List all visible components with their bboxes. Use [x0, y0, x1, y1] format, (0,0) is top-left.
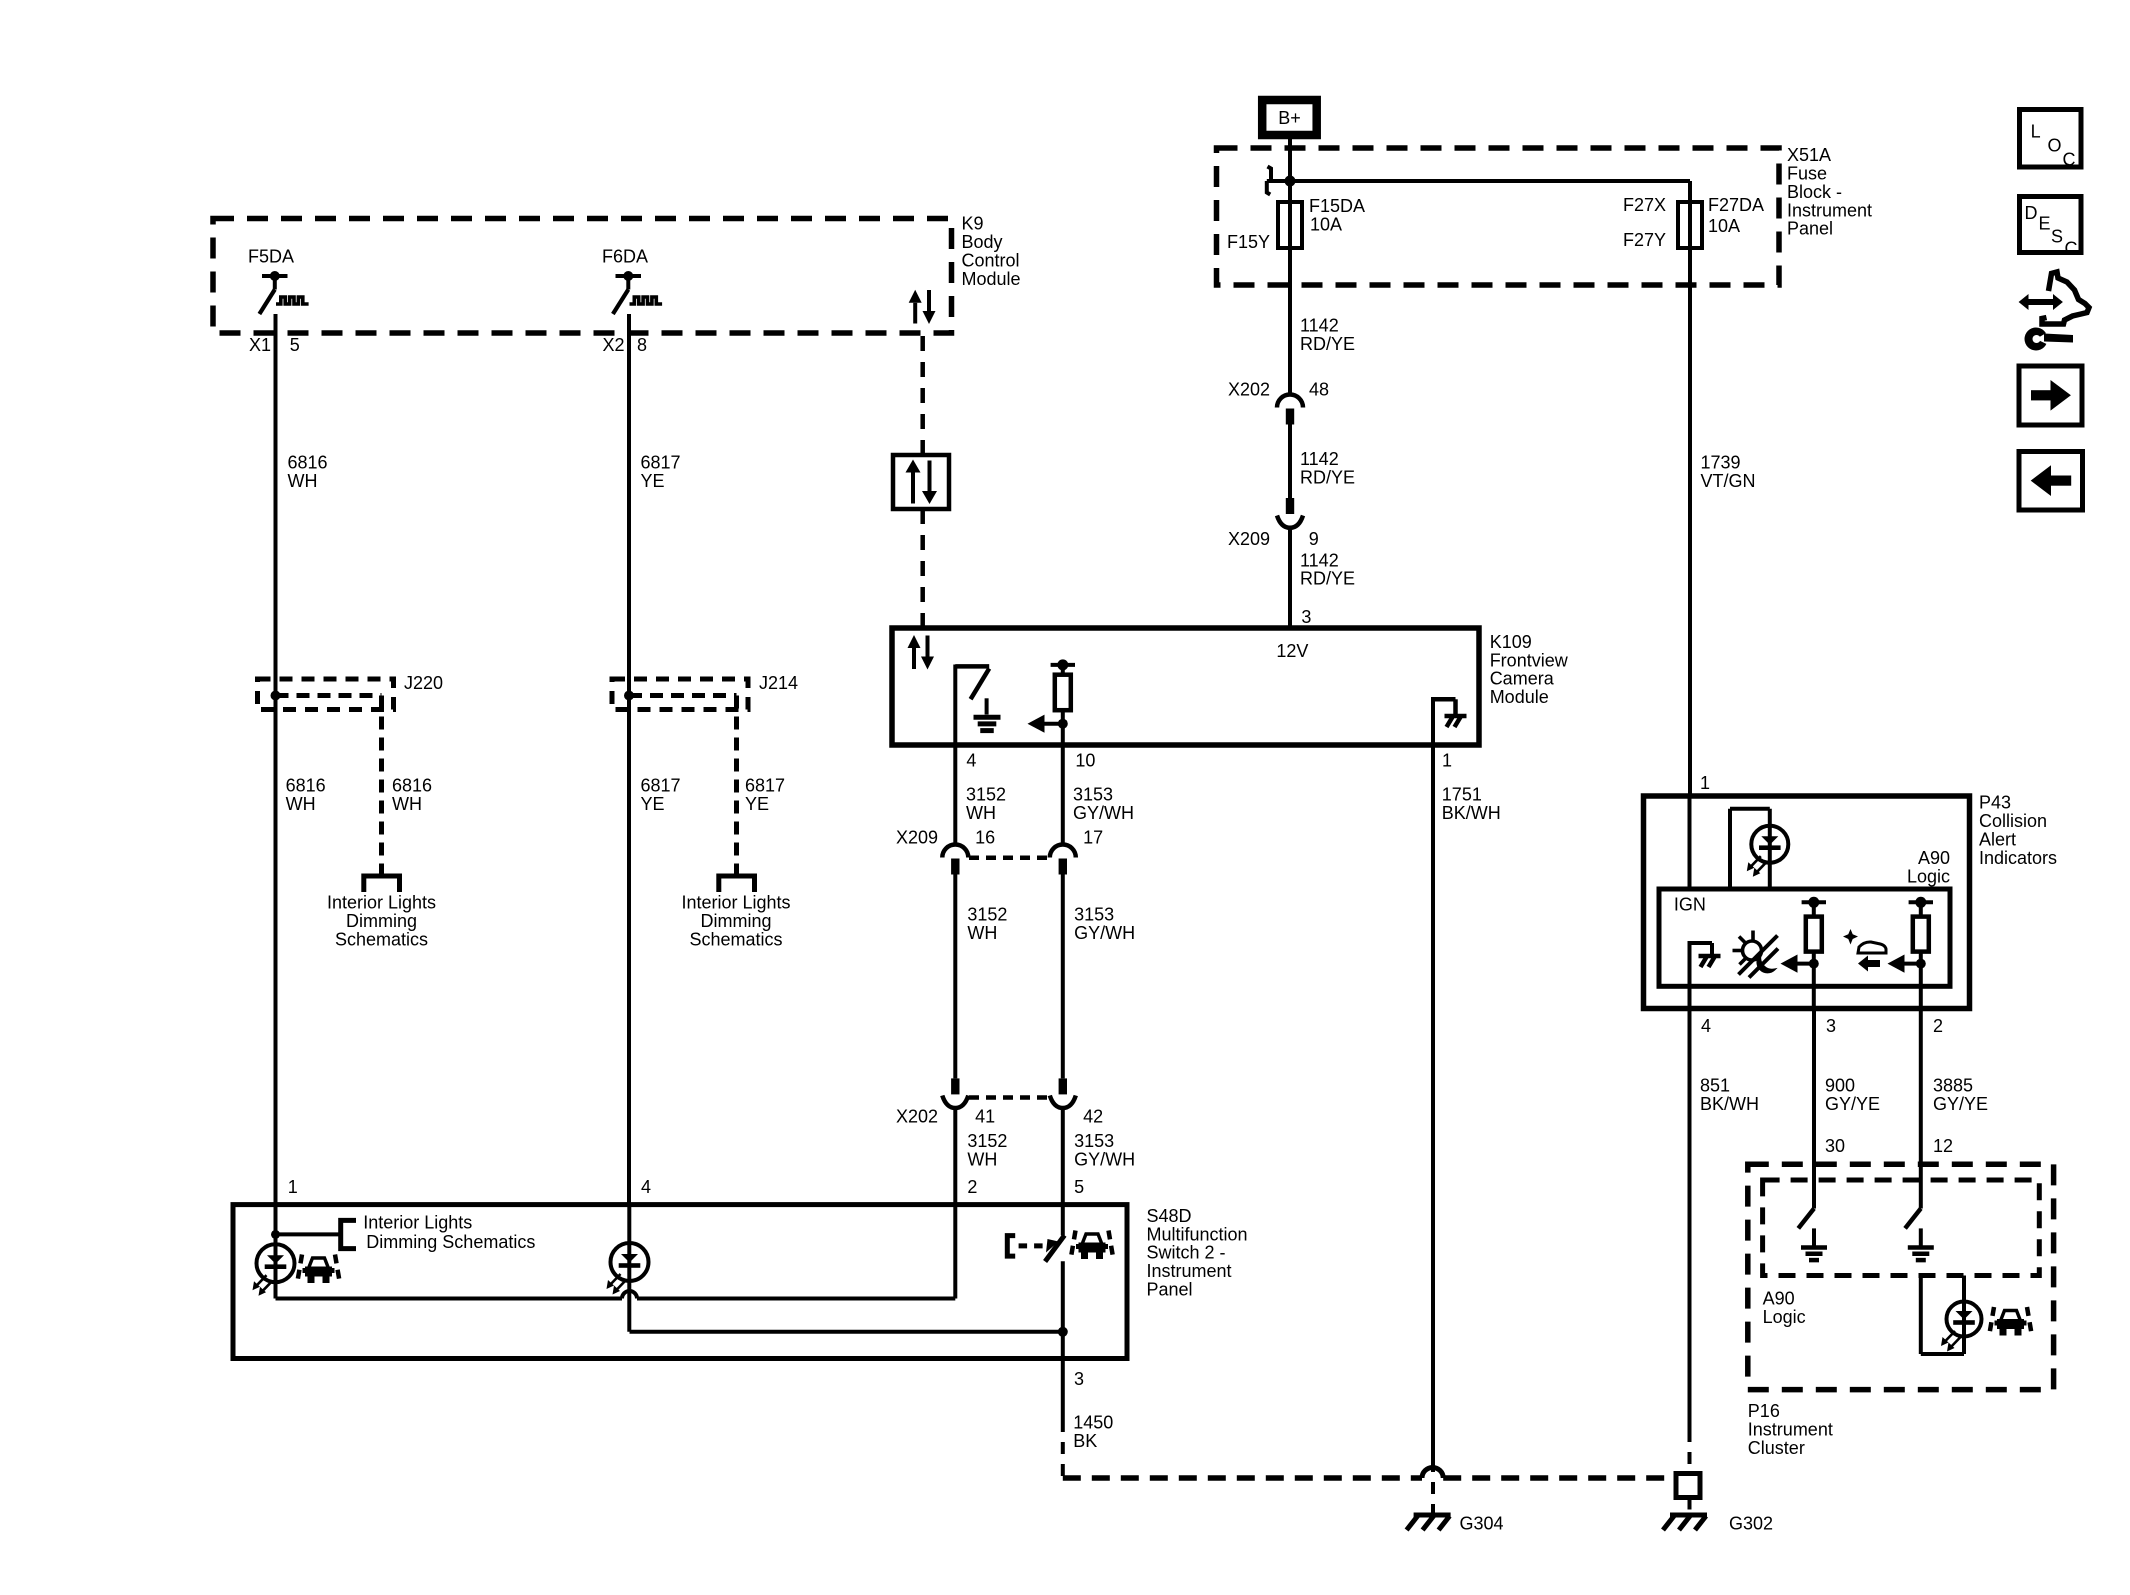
- svg-text:WH: WH: [392, 794, 422, 814]
- svg-text:F15Y: F15Y: [1227, 232, 1270, 252]
- svg-text:X51A: X51A: [1787, 145, 1831, 165]
- svg-text:1142: 1142: [1300, 449, 1339, 469]
- svg-text:K9: K9: [962, 214, 984, 234]
- svg-text:Frontview: Frontview: [1490, 650, 1569, 670]
- svg-text:900: 900: [1825, 1076, 1855, 1096]
- svg-text:Camera: Camera: [1490, 669, 1555, 689]
- svg-text:RD/YE: RD/YE: [1300, 334, 1355, 354]
- svg-text:A90: A90: [1918, 848, 1950, 868]
- svg-text:3: 3: [1301, 607, 1311, 627]
- svg-text:851: 851: [1700, 1076, 1730, 1096]
- svg-text:Panel: Panel: [1147, 1280, 1193, 1300]
- svg-text:VT/GN: VT/GN: [1701, 471, 1756, 491]
- svg-text:3: 3: [1074, 1369, 1084, 1389]
- svg-text:X202: X202: [1228, 380, 1270, 400]
- svg-text:3152: 3152: [967, 905, 1007, 925]
- svg-text:Dimming: Dimming: [346, 911, 417, 931]
- svg-text:Switch 2 -: Switch 2 -: [1147, 1243, 1226, 1263]
- svg-text:BK: BK: [1073, 1431, 1097, 1451]
- svg-text:YE: YE: [641, 794, 665, 814]
- svg-text:F15DA: F15DA: [1309, 196, 1365, 216]
- svg-text:3153: 3153: [1074, 1131, 1114, 1151]
- svg-text:X209: X209: [1228, 529, 1270, 549]
- svg-text:Interior Lights: Interior Lights: [363, 1213, 472, 1233]
- svg-text:X202: X202: [896, 1107, 938, 1127]
- svg-text:GY/YE: GY/YE: [1825, 1094, 1880, 1114]
- svg-text:S: S: [2051, 226, 2063, 246]
- svg-text:BK/WH: BK/WH: [1442, 803, 1501, 823]
- svg-text:6817: 6817: [641, 453, 681, 473]
- svg-text:1142: 1142: [1300, 316, 1339, 336]
- svg-text:GY/WH: GY/WH: [1074, 923, 1135, 943]
- svg-text:3152: 3152: [967, 1131, 1007, 1151]
- svg-text:3885: 3885: [1933, 1076, 1973, 1096]
- svg-text:J220: J220: [404, 673, 443, 693]
- svg-text:WH: WH: [967, 1149, 997, 1169]
- svg-text:4: 4: [641, 1177, 651, 1197]
- svg-text:3153: 3153: [1073, 785, 1113, 805]
- svg-text:Instrument: Instrument: [1787, 200, 1872, 220]
- svg-text:Module: Module: [962, 269, 1021, 289]
- svg-text:F5DA: F5DA: [248, 247, 294, 267]
- svg-text:10: 10: [1075, 751, 1095, 771]
- svg-text:6816: 6816: [392, 775, 432, 795]
- svg-text:2: 2: [967, 1177, 977, 1197]
- svg-text:Schematics: Schematics: [335, 929, 428, 949]
- svg-text:1: 1: [288, 1177, 298, 1197]
- svg-text:Instrument: Instrument: [1147, 1261, 1232, 1281]
- svg-text:16: 16: [975, 828, 995, 848]
- svg-text:GY/WH: GY/WH: [1074, 1149, 1135, 1169]
- svg-text:B+: B+: [1278, 108, 1301, 128]
- svg-text:10A: 10A: [1310, 215, 1342, 235]
- svg-text:1450: 1450: [1073, 1413, 1113, 1433]
- svg-text:Multifunction: Multifunction: [1147, 1224, 1248, 1244]
- svg-text:P43: P43: [1979, 793, 2011, 813]
- svg-text:6816: 6816: [286, 775, 326, 795]
- svg-text:30: 30: [1825, 1136, 1845, 1156]
- svg-text:Schematics: Schematics: [689, 929, 782, 949]
- svg-text:X209: X209: [896, 828, 938, 848]
- svg-text:Block -: Block -: [1787, 182, 1842, 202]
- svg-text:48: 48: [1309, 380, 1329, 400]
- svg-text:4: 4: [966, 751, 976, 771]
- svg-text:X1: X1: [249, 335, 271, 355]
- svg-text:WH: WH: [966, 803, 996, 823]
- svg-text:GY/YE: GY/YE: [1933, 1094, 1988, 1114]
- svg-text:S48D: S48D: [1147, 1206, 1192, 1226]
- svg-text:Instrument: Instrument: [1748, 1419, 1833, 1439]
- svg-text:12: 12: [1933, 1136, 1953, 1156]
- svg-text:WH: WH: [967, 923, 997, 943]
- svg-text:Dimming Schematics: Dimming Schematics: [366, 1232, 535, 1252]
- svg-text:D: D: [2025, 203, 2038, 223]
- svg-text:C: C: [2063, 150, 2076, 170]
- svg-text:Logic: Logic: [1907, 866, 1950, 886]
- svg-text:Module: Module: [1490, 687, 1549, 707]
- svg-text:Fuse: Fuse: [1787, 164, 1827, 184]
- svg-text:3153: 3153: [1074, 905, 1114, 925]
- svg-text:5: 5: [1074, 1177, 1084, 1197]
- svg-text:5: 5: [290, 335, 300, 355]
- svg-text:6817: 6817: [745, 775, 785, 795]
- svg-text:WH: WH: [286, 794, 316, 814]
- svg-text:X2: X2: [602, 335, 624, 355]
- svg-text:1: 1: [1442, 751, 1452, 771]
- svg-text:O: O: [2048, 135, 2062, 155]
- svg-text:Collision: Collision: [1979, 811, 2047, 831]
- svg-text:WH: WH: [288, 471, 318, 491]
- svg-text:IGN: IGN: [1674, 895, 1706, 915]
- svg-text:K109: K109: [1490, 632, 1532, 652]
- svg-text:Logic: Logic: [1763, 1307, 1806, 1327]
- svg-text:12V: 12V: [1276, 641, 1308, 661]
- svg-text:P16: P16: [1748, 1401, 1780, 1421]
- svg-text:F27DA: F27DA: [1708, 195, 1764, 215]
- svg-text:4: 4: [1701, 1016, 1711, 1036]
- svg-text:3: 3: [1826, 1016, 1836, 1036]
- svg-text:F27Y: F27Y: [1623, 230, 1666, 250]
- svg-text:6817: 6817: [641, 775, 681, 795]
- svg-text:3152: 3152: [966, 785, 1006, 805]
- svg-text:41: 41: [975, 1107, 995, 1127]
- svg-text:J214: J214: [759, 673, 798, 693]
- svg-text:YE: YE: [745, 794, 769, 814]
- svg-text:Panel: Panel: [1787, 219, 1833, 239]
- svg-text:1751: 1751: [1442, 785, 1482, 805]
- svg-text:42: 42: [1083, 1107, 1103, 1127]
- svg-text:8: 8: [637, 335, 647, 355]
- svg-text:E: E: [2039, 213, 2051, 233]
- svg-text:F27X: F27X: [1623, 195, 1666, 215]
- svg-text:A90: A90: [1763, 1288, 1795, 1308]
- svg-text:G304: G304: [1460, 1513, 1504, 1533]
- svg-text:C: C: [2065, 238, 2078, 258]
- svg-text:1739: 1739: [1701, 453, 1741, 473]
- svg-text:Interior Lights: Interior Lights: [681, 893, 790, 913]
- svg-text:F6DA: F6DA: [602, 247, 648, 267]
- svg-text:Control: Control: [962, 250, 1020, 270]
- svg-text:10A: 10A: [1708, 216, 1740, 236]
- svg-text:YE: YE: [641, 471, 665, 491]
- svg-text:G302: G302: [1729, 1513, 1773, 1533]
- svg-text:Body: Body: [962, 232, 1003, 252]
- svg-text:Indicators: Indicators: [1979, 848, 2057, 868]
- svg-text:Alert: Alert: [1979, 830, 2016, 850]
- svg-text:GY/WH: GY/WH: [1073, 803, 1134, 823]
- svg-text:L: L: [2031, 122, 2041, 142]
- svg-text:17: 17: [1083, 828, 1103, 848]
- svg-text:6816: 6816: [288, 453, 328, 473]
- svg-text:9: 9: [1309, 529, 1319, 549]
- svg-text:BK/WH: BK/WH: [1700, 1094, 1759, 1114]
- svg-text:Interior Lights: Interior Lights: [327, 893, 436, 913]
- svg-text:1142: 1142: [1300, 550, 1339, 570]
- svg-text:2: 2: [1933, 1016, 1943, 1036]
- svg-text:Dimming: Dimming: [700, 911, 771, 931]
- svg-text:Cluster: Cluster: [1748, 1438, 1805, 1458]
- svg-text:1: 1: [1700, 773, 1710, 793]
- svg-text:RD/YE: RD/YE: [1300, 467, 1355, 487]
- svg-text:RD/YE: RD/YE: [1300, 569, 1355, 589]
